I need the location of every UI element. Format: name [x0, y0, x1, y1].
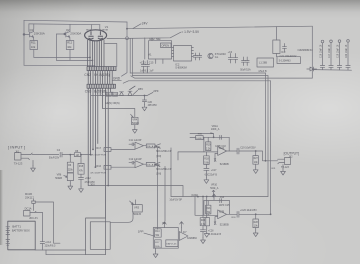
svg-text:2SK30A: 2SK30A — [34, 31, 45, 35]
vacuum tube V1 grid dashes — [87, 29, 108, 31]
wire R17 to IC1A — [111, 148, 135, 150]
connector CN3 body — [87, 84, 116, 88]
capacitor C19 — [237, 148, 239, 154]
svg-text:R15: R15 — [79, 166, 84, 168]
wire IC2A out 2 — [239, 151, 278, 161]
svg-text:IC2B: IC2B — [219, 210, 225, 213]
svg-text:CN3 B(2B)2B: CN3 B(2B)2B — [85, 90, 108, 94]
wire Q1 source to R11 — [33, 37, 35, 40]
svg-text:500kD: 500kD — [132, 122, 139, 125]
svg-text:1uF/6.3 1uF: 1uF/6.3 1uF — [140, 70, 154, 73]
svg-text:+C17: +C17 — [211, 170, 217, 172]
svg-text:C19 10uF/25V: C19 10uF/25V — [240, 147, 256, 150]
wire 28V row — [91, 95, 147, 97]
wire IC2A plus input — [215, 153, 218, 158]
svg-text:(100k): (100k) — [191, 194, 198, 197]
wire bus rail A2 — [132, 75, 268, 77]
wire R28 drop — [255, 214, 257, 219]
svg-text:28V: 28V — [138, 87, 143, 91]
transistor MU1B — [32, 199, 36, 204]
wire IC2A feedback right — [228, 137, 230, 151]
output jack JK2 — [278, 158, 291, 165]
capacitor C14 — [40, 242, 44, 250]
wire left of box vertical — [144, 38, 146, 59]
svg-text:TX-123: TX-123 — [281, 166, 290, 169]
svg-text:C15: C15 — [149, 62, 154, 65]
capacitor C7 — [242, 57, 246, 66]
wire VR3 top stub — [135, 200, 137, 205]
svg-text:47k 1005F FILM: 47k 1005F FILM — [90, 172, 106, 174]
wire output jack sleeve — [282, 165, 284, 169]
wire bottom rail right drop — [311, 70, 313, 79]
node junction dots — [69, 154, 71, 156]
wire outer top rail — [24, 20, 127, 22]
wire IC2B feedback top — [204, 200, 230, 202]
svg-text:R26: R26 — [106, 94, 111, 96]
wire input line 3 — [81, 154, 91, 156]
wire CN2 to CN3 bundle — [88, 71, 112, 85]
node TP junction circle — [126, 37, 129, 40]
wire IC2A feedback top — [203, 136, 229, 138]
capacitor C28 — [200, 226, 205, 238]
wire inner top rail — [29, 23, 100, 26]
ground VR6 — [68, 184, 73, 190]
resistor R8B — [196, 136, 204, 140]
wire IC2B out 2 — [239, 213, 271, 215]
svg-text:R29: R29 — [113, 94, 118, 96]
svg-text:4.5uF B: 4.5uF B — [258, 70, 267, 73]
switch SW1A — [155, 144, 161, 148]
resistor R16 — [104, 165, 111, 169]
resistor R27 — [253, 156, 259, 165]
svg-text:IC2A: IC2A — [219, 147, 225, 150]
wire R27 bottom — [255, 164, 257, 167]
transistor Q1 — [23, 32, 33, 38]
node 1PP pointer — [144, 233, 155, 236]
svg-text:VR3: VR3 — [134, 206, 140, 210]
svg-text:5218DB: 5218DB — [220, 223, 229, 226]
svg-text:[ INPUT ]: [ INPUT ] — [8, 145, 26, 150]
svg-text:100B: 100B — [196, 138, 202, 140]
wire tube top pin 2 — [99, 25, 101, 30]
capacitor C3 — [228, 54, 232, 64]
op-amp IC2 DIP body — [174, 46, 192, 62]
svg-text:GL: GL — [215, 55, 219, 59]
wire outer left vertical — [23, 20, 25, 65]
svg-text:100K_A: 100K_A — [211, 128, 220, 131]
svg-text:GND: GND — [113, 77, 121, 81]
left paper edge shadow — [0, 170, 3, 245]
regulator IC3 body — [273, 40, 280, 54]
svg-text:BATT1: BATT1 — [12, 225, 21, 229]
wire pot line 2 — [190, 136, 196, 138]
wire R15 drop — [80, 155, 82, 164]
svg-text:[OFF]: [OFF] — [154, 165, 160, 167]
svg-text:1PP: 1PP — [138, 230, 144, 234]
svg-text:R30: R30 — [232, 217, 237, 219]
diode D3 — [128, 91, 132, 95]
svg-text:MR-C2594-CP: MR-C2594-CP — [156, 151, 172, 153]
resistor R19 — [206, 137, 211, 150]
svg-text:NJM2866F33: NJM2866F33 — [298, 49, 314, 52]
capacitor C11 — [129, 143, 135, 146]
wire bus drop 2 — [131, 39, 133, 76]
wire loop rectangle outer — [86, 218, 106, 255]
battery cells 2 — [6, 240, 10, 246]
wire stage A aux down — [170, 148, 172, 197]
wire bottom rail c — [24, 64, 95, 66]
resistor R15 — [78, 163, 84, 174]
capacitor C20 — [142, 96, 146, 105]
wire IC3 top stub — [275, 27, 277, 40]
svg-text:500k_A: 500k_A — [210, 187, 219, 190]
ground big box — [153, 251, 158, 257]
svg-text:220k: 220k — [68, 170, 74, 172]
wire C28 chain — [202, 197, 204, 218]
svg-text:50uF/15A: 50uF/15A — [240, 69, 251, 72]
svg-text:C22 10uF 16: C22 10uF 16 — [346, 44, 348, 58]
wire IC2A out — [227, 150, 237, 152]
svg-text:R31: R31 — [272, 168, 277, 170]
svg-text:OPEN: OPEN — [161, 44, 169, 48]
resistor R18 — [204, 156, 210, 165]
potentiometer VR1A — [190, 133, 214, 137]
svg-text:R28: R28 — [254, 222, 259, 224]
resistor R26b — [200, 218, 206, 226]
wire CN3 diagonal — [130, 86, 136, 90]
node 24V pointer — [133, 24, 141, 29]
potentiometer VR3 — [130, 201, 143, 212]
capacitor C13 — [141, 61, 145, 74]
resistor R12 — [66, 41, 74, 50]
power arrow IC7 — [180, 222, 184, 228]
wire node junction vertical at x127 — [126, 22, 128, 37]
potentiometer VR10 — [212, 190, 215, 196]
wire IC1B out — [144, 163, 147, 165]
svg-text:[OFF]: [OFF] — [154, 147, 160, 149]
ground C20 — [142, 105, 147, 111]
capacitor C26 — [237, 212, 239, 218]
wire R11 bottom — [33, 50, 35, 58]
resistor array box B — [146, 162, 155, 166]
wire IC7 power stub — [181, 228, 183, 232]
svg-text:C11 1uF/2P: C11 1uF/2P — [129, 139, 142, 142]
wire GND stub under label — [113, 79, 122, 81]
svg-text:47k 1005F FILM: 47k 1005F FILM — [90, 155, 106, 157]
wire IC1A out — [144, 145, 147, 147]
IC2 pin stubs — [172, 48, 194, 57]
wire right vertical from rail B2 — [270, 81, 272, 215]
wire R24 bottom — [206, 226, 208, 231]
svg-text:NJM2866: NJM2866 — [187, 238, 198, 240]
svg-text:1M: 1M — [76, 155, 79, 157]
ground C28 — [201, 237, 206, 243]
ground output jack — [281, 169, 286, 175]
svg-text:R16: R16 — [96, 165, 101, 168]
wire IC2A feedback left — [203, 137, 205, 152]
capacitor C12b — [129, 161, 135, 164]
svg-text:10k: 10k — [67, 45, 72, 49]
wire input line — [32, 154, 59, 156]
svg-text:DC1A: DC1A — [25, 207, 32, 211]
wire Q1 drain to rail — [33, 24, 35, 32]
svg-text:+C14: +C14 — [45, 241, 51, 244]
svg-text:GR(N): GR(N) — [105, 102, 112, 105]
wire DC jack to C14 — [35, 211, 43, 213]
svg-text:24V: 24V — [142, 21, 149, 25]
wire Q2 base vertical — [56, 34, 58, 60]
svg-text:= 1.9V~3.5V: = 1.9V~3.5V — [181, 30, 200, 34]
svg-text:+C13: +C13 — [140, 62, 147, 65]
svg-text:JK2: JK2 — [289, 156, 294, 158]
capacitor C18 — [220, 135, 222, 139]
resistor R26 — [106, 92, 111, 96]
wire CN3 down bundle short — [100, 88, 113, 218]
resistor R29 — [113, 92, 118, 96]
svg-text:47k: 47k — [79, 171, 84, 173]
wire R24 feed — [206, 197, 208, 218]
svg-text:30V: 30V — [90, 182, 95, 186]
capacitor column C22 — [346, 40, 350, 70]
svg-text:14PF C15: 14PF C15 — [219, 204, 230, 207]
wire right vertical from rail A1 — [265, 73, 267, 161]
potentiometer VR4 — [131, 114, 138, 124]
capacitor column C17 — [329, 40, 333, 70]
resistor R17 — [104, 148, 111, 152]
ground C12 — [79, 186, 84, 192]
svg-text:S-80542M: S-80542M — [175, 67, 187, 70]
svg-text:TX-123: TX-123 — [14, 162, 23, 166]
inductor L1 box — [257, 58, 274, 67]
wire MU1B drain line — [36, 202, 61, 243]
wire IC2B feedback left — [203, 201, 205, 216]
svg-text:10uF/2V 5P: 10uF/2V 5P — [169, 198, 182, 201]
resistor R24 — [204, 218, 210, 226]
svg-text:MR-C2594-CP: MR-C2594-CP — [156, 169, 172, 171]
svg-text:+C3: +C3 — [228, 51, 233, 54]
DC jack DC1A — [24, 211, 37, 217]
node 2PF pointer — [147, 92, 153, 95]
wire VR3 to loop — [110, 212, 133, 222]
resistor array box A — [146, 144, 155, 148]
svg-text:2SK30A: 2SK30A — [70, 31, 81, 35]
wire C14 vertical — [41, 212, 43, 241]
capacitor column C18 — [337, 40, 341, 70]
svg-text:C21 100uF/16V: C21 100uF/16V — [280, 55, 297, 58]
wire R28 bottom — [255, 228, 257, 231]
wire IC3 bottom stub — [275, 54, 277, 57]
svg-text:V1: V1 — [105, 25, 109, 29]
wire ground drop from junction circle — [122, 40, 128, 77]
wire box bottom stubs — [156, 59, 163, 64]
wire Q2 drain feed — [69, 24, 71, 31]
connector CN2 body — [87, 67, 116, 71]
svg-text:500k B: 500k B — [133, 213, 141, 216]
svg-text:5218DB: 5218DB — [220, 163, 229, 166]
svg-text:50uF/25V: 50uF/25V — [49, 157, 60, 160]
op-amp IC2A — [218, 147, 227, 156]
capacitor C4 — [233, 54, 237, 64]
svg-text:IC7: IC7 — [183, 232, 187, 234]
diode D1 — [307, 67, 317, 71]
resistor R21 — [206, 201, 211, 216]
svg-text:OR(N): OR(N) — [113, 102, 120, 105]
resistor R6 — [67, 162, 73, 172]
svg-text:C14: C14 — [220, 196, 225, 199]
wire Q2 source to R12 — [69, 37, 71, 40]
node 28V pointer — [133, 90, 138, 94]
svg-text:C17 10uF 16: C17 10uF 16 — [329, 44, 331, 58]
svg-text:C18 10uF 16: C18 10uF 16 — [338, 44, 340, 58]
wire bus rail B1 — [131, 76, 312, 78]
wire Q1 drain feed — [28, 24, 30, 32]
svg-text:L1 26B: L1 26B — [259, 61, 267, 64]
svg-text:BATTERY BOX: BATTERY BOX — [12, 229, 30, 233]
wire loop rectangle inner — [90, 222, 110, 250]
wire IC2B input — [195, 197, 218, 216]
ground R24 — [204, 231, 209, 237]
ground VR4 — [132, 127, 137, 133]
svg-text:2PF: 2PF — [153, 89, 159, 93]
svg-text:+C12: +C12 — [85, 177, 91, 180]
wire MU1B to DC jack — [33, 204, 35, 211]
capacitor C6 — [197, 53, 201, 60]
svg-text:R19: R19 — [206, 145, 211, 147]
IC5 DAF17 box — [166, 240, 178, 247]
ground input jack — [31, 166, 36, 172]
svg-text:C12 1uF/2P: C12 1uF/2P — [129, 158, 142, 161]
wire input line 2 — [62, 154, 74, 156]
wire bus rail B2 — [123, 81, 270, 83]
svg-text:NF: NF — [162, 221, 166, 225]
ground R27 — [253, 167, 258, 173]
svg-text:R17: R17 — [155, 242, 160, 244]
ground R28 — [253, 230, 258, 236]
wire VR6 bottom — [69, 181, 71, 184]
vacuum tube V1 triode section right — [98, 32, 102, 39]
capacitor C21 — [283, 44, 287, 52]
wire 24V rail — [127, 26, 312, 29]
svg-text:2DC-P1: 2DC-P1 — [29, 217, 38, 220]
svg-text:A1: A1 — [148, 53, 152, 57]
svg-text:[ON]: [ON] — [156, 174, 161, 176]
svg-text:220uF/6.3: 220uF/6.3 — [45, 245, 56, 248]
wire bottom rail b — [57, 59, 93, 61]
svg-text:R14: R14 — [155, 231, 160, 233]
wire battery bottom rail — [35, 249, 85, 251]
connector CN2 pins — [89, 67, 113, 71]
switch cluster big box — [153, 228, 178, 249]
resistor R8 — [74, 153, 80, 157]
svg-text:2.2k: 2.2k — [206, 149, 211, 151]
ground arrow IC2A plus — [214, 158, 216, 161]
svg-text:IC3: IC3 — [281, 50, 286, 54]
wire 24V rail right drop — [311, 26, 313, 69]
op-amp IC7 — [179, 232, 188, 241]
ground C17 — [204, 177, 209, 183]
wire bus rail A1 — [130, 72, 265, 74]
wire IC2A input — [178, 152, 218, 160]
wire IC2B feedback right — [229, 201, 231, 215]
svg-text:R6: R6 — [68, 165, 72, 167]
svg-text:70k: 70k — [207, 212, 212, 214]
resistor R17b — [155, 240, 162, 248]
svg-text:R21: R21 — [206, 208, 211, 210]
potentiometer VR6 — [64, 173, 74, 181]
svg-text:10k_A: 10k_A — [147, 145, 154, 148]
wire IC2B plus input — [215, 217, 218, 222]
diode D2 — [120, 92, 124, 96]
capacitor C5 — [193, 53, 197, 60]
op-amp IC1A — [135, 142, 144, 149]
connector CN3 pins — [89, 84, 113, 88]
wire heater rail — [107, 32, 181, 38]
wire switch B common down — [164, 166, 166, 221]
wire bottom rail a — [34, 56, 90, 58]
svg-text:R11: R11 — [31, 41, 36, 45]
svg-text:2SK117: 2SK117 — [25, 197, 34, 200]
switch SW1B — [155, 162, 160, 166]
svg-text:C4: C4 — [57, 149, 61, 152]
svg-text:[OUTPUT]: [OUTPUT] — [284, 151, 299, 155]
capacitor column C16 — [320, 40, 324, 69]
op-amp IC2B — [218, 210, 227, 219]
resistor R14 — [155, 229, 162, 237]
svg-text:+C28: +C28 — [208, 231, 214, 233]
resistor R28 — [253, 219, 259, 228]
svg-text:R12: R12 — [67, 41, 72, 45]
wire capacitor columns bottom rail — [312, 69, 351, 72]
resistor R11 — [30, 41, 38, 50]
wire tube right pin horizontal — [104, 44, 117, 67]
wire big box ground stub — [155, 248, 157, 251]
capacitor C17 — [204, 164, 209, 177]
svg-text:4PF/35V: 4PF/35V — [148, 104, 158, 107]
battery cells 1 — [6, 227, 10, 235]
power arrow NF — [163, 222, 167, 228]
regulator block box R22 — [149, 41, 172, 59]
wire jack sleeve to ground — [32, 160, 34, 165]
wire R27 drop — [255, 151, 257, 156]
svg-text:R18: R18 — [204, 158, 209, 160]
svg-text:R8B: R8B — [198, 133, 203, 135]
wire tube top pin 1 — [91, 25, 93, 30]
svg-text:6.3C22uF B: 6.3C22uF B — [205, 174, 218, 176]
wire bottom rail M — [171, 196, 268, 198]
svg-text:R22 56k: R22 56k — [149, 37, 161, 41]
battery BATT1 box — [8, 221, 35, 250]
wire CN3 down bundle long — [88, 88, 98, 185]
wire R6 drop — [69, 155, 71, 163]
svg-text:6.3C22uF B: 6.3C22uF B — [209, 234, 222, 236]
wire right vertical from rail A2 — [267, 76, 269, 197]
wire loop rail left — [46, 250, 86, 255]
svg-text:10k_A: 10k_A — [147, 163, 154, 166]
svg-text:R17: R17 — [96, 147, 101, 150]
svg-text:DAF17-45: DAF17-45 — [166, 243, 177, 246]
wire R16 to IC1B — [111, 166, 135, 168]
wire bottom rail L — [88, 186, 183, 197]
transistor Q3 — [208, 53, 213, 58]
svg-text:[ON]: [ON] — [156, 156, 161, 158]
input jack JK1 — [15, 153, 33, 160]
capacitor C4in — [60, 152, 62, 157]
wire IC2B out — [227, 213, 237, 215]
vacuum tube V1 triode section left — [89, 32, 93, 39]
op-amp IC1B — [135, 161, 144, 168]
svg-text:R26: R26 — [201, 220, 206, 222]
ground arrow IC2B plus — [214, 222, 216, 225]
